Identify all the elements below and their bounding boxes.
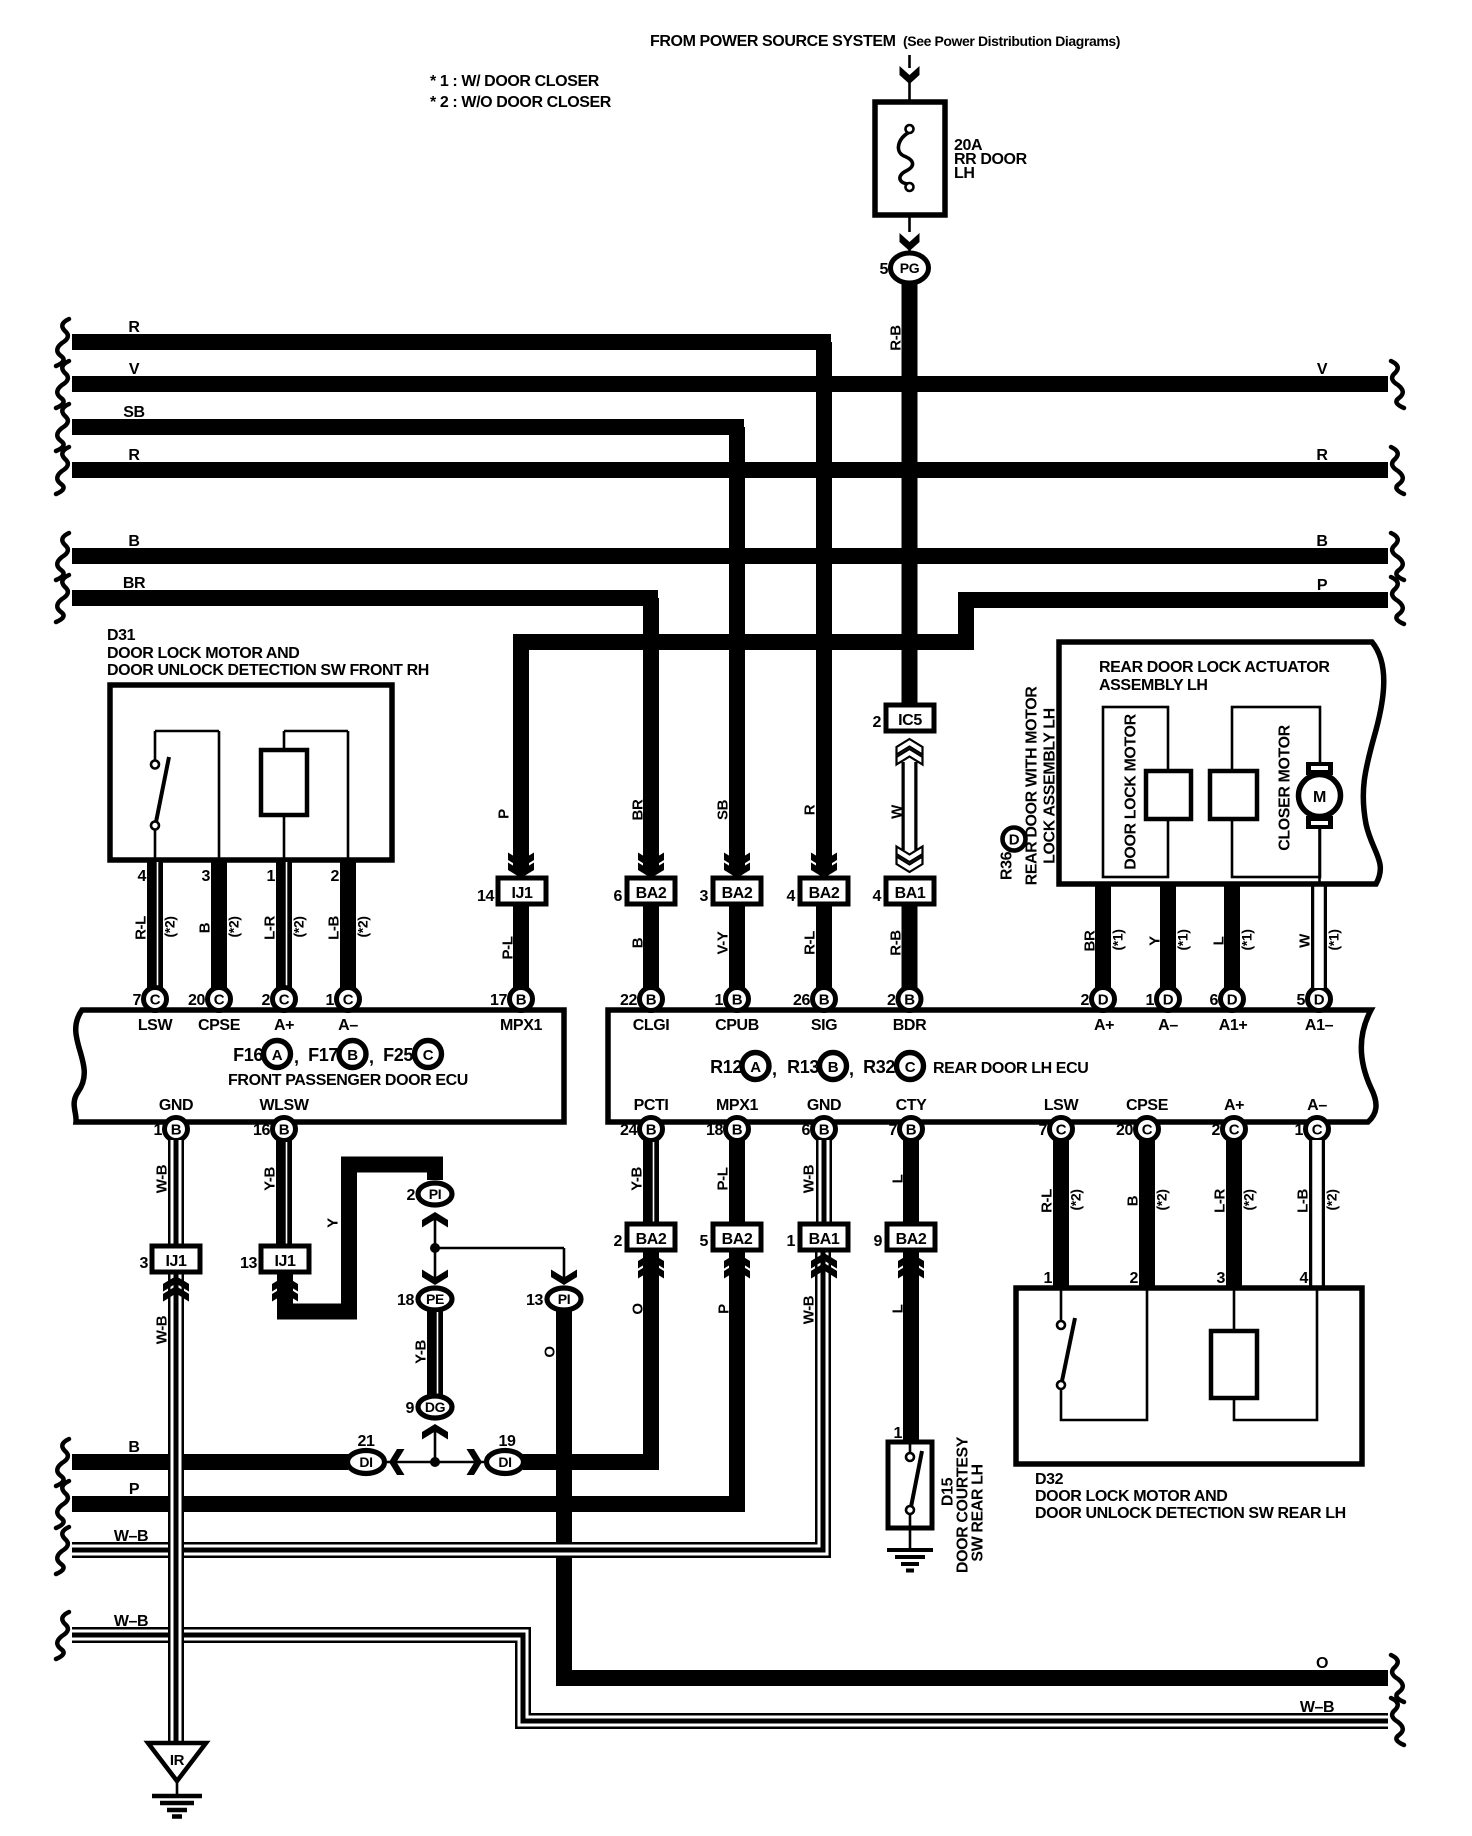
svg-text:REAR DOOR LH ECU: REAR DOOR LH ECU xyxy=(933,1060,1088,1077)
wire BR actuator pin2 xyxy=(1095,880,1111,988)
svg-text:BA2: BA2 xyxy=(722,1231,753,1248)
svg-text:1: 1 xyxy=(267,868,276,885)
arrow into IJ1-14 xyxy=(508,853,534,869)
junction box 6 BA2 xyxy=(627,878,675,904)
svg-text:7: 7 xyxy=(133,992,142,1009)
svg-text:3: 3 xyxy=(1217,1270,1226,1287)
pin 1 C A- rear xyxy=(1306,1118,1329,1141)
connector 2 PI xyxy=(418,1183,452,1205)
svg-text:BA2: BA2 xyxy=(809,885,840,902)
svg-text:B: B xyxy=(128,533,139,550)
svg-text:L-B: L-B xyxy=(326,916,343,940)
svg-text:(*1): (*1) xyxy=(1110,930,1126,951)
wire PI-2 to junction xyxy=(435,1216,564,1248)
pin 7 C LSW rear xyxy=(1050,1118,1073,1141)
svg-text:B: B xyxy=(732,992,743,1009)
pin 1 C A- xyxy=(337,988,360,1011)
svg-text:L: L xyxy=(1211,936,1228,945)
svg-text:R-L: R-L xyxy=(802,931,819,955)
svg-text:BA2: BA2 xyxy=(722,885,753,902)
svg-text:19: 19 xyxy=(499,1433,516,1450)
svg-text:18: 18 xyxy=(397,1292,414,1309)
svg-text:(*1): (*1) xyxy=(1326,930,1342,951)
svg-text:IJ1: IJ1 xyxy=(511,885,533,902)
svg-text:B: B xyxy=(630,937,647,948)
svg-text:1: 1 xyxy=(1044,1270,1053,1287)
pin 1 D A- xyxy=(1157,988,1180,1011)
svg-text:F25: F25 xyxy=(383,1045,413,1065)
svg-text:A–: A– xyxy=(1158,1017,1178,1034)
junction box 3 BA2 xyxy=(713,878,761,904)
svg-text:GND: GND xyxy=(159,1097,193,1114)
svg-text:LOCK ASSEMBLY LH: LOCK ASSEMBLY LH xyxy=(1042,708,1059,864)
svg-text:P: P xyxy=(1317,577,1328,594)
wire R-B from BA1 to ECU BDR xyxy=(902,904,918,988)
svg-text:(*2): (*2) xyxy=(1324,1190,1340,1211)
svg-text:Y-B: Y-B xyxy=(413,1340,430,1364)
left break W-B xyxy=(56,1527,69,1574)
pin 17 B MPX1 xyxy=(510,988,533,1011)
svg-text:* 1 : W/ DOOR CLOSER: * 1 : W/ DOOR CLOSER xyxy=(430,73,600,90)
pin 18 B MPX1 xyxy=(726,1118,749,1141)
junction box 2 IC5 xyxy=(886,705,934,731)
arrow into BA2-3 xyxy=(724,853,750,869)
open arrows up from IC5 xyxy=(897,749,923,765)
connector 21 DI xyxy=(348,1451,385,1474)
wire B rear pin2 xyxy=(1139,1140,1155,1288)
arrow left into DI-21 xyxy=(389,1449,405,1475)
svg-text:BA2: BA2 xyxy=(636,885,667,902)
svg-text:C: C xyxy=(1312,1122,1323,1139)
svg-text:2: 2 xyxy=(331,868,340,885)
courtesy switch xyxy=(909,1442,912,1453)
svg-text:DOOR LOCK MOTOR AND: DOOR LOCK MOTOR AND xyxy=(107,645,299,662)
junction dot B link xyxy=(430,1457,440,1467)
arrow into BA2-4 xyxy=(811,853,837,869)
svg-text:SB: SB xyxy=(123,404,144,421)
svg-text:4: 4 xyxy=(787,888,796,905)
svg-text:L: L xyxy=(890,1174,907,1183)
svg-text:W-B: W-B xyxy=(801,1295,818,1324)
pin 2 C A+ xyxy=(273,988,296,1011)
pin 7 C LSW xyxy=(144,988,167,1011)
svg-text:1: 1 xyxy=(894,1425,903,1442)
connector 21 DI link xyxy=(384,1461,487,1464)
svg-text:6: 6 xyxy=(1210,992,1219,1009)
svg-text:A+: A+ xyxy=(1224,1097,1244,1114)
junction box 5 BA2 xyxy=(713,1224,761,1250)
arrow into BA2-6 xyxy=(638,853,664,869)
component box REAR DOOR LOCK ACTUATOR ASSEMBLY LH xyxy=(1059,642,1384,884)
svg-text:A+: A+ xyxy=(1094,1017,1114,1034)
svg-text:R-B: R-B xyxy=(888,930,905,956)
connector 18 PE xyxy=(418,1288,452,1310)
svg-text:(*2): (*2) xyxy=(1154,1190,1170,1211)
wire L CTY to BA2-9 xyxy=(903,1140,919,1224)
left break R2 xyxy=(56,447,69,494)
wire P-L from IJ1 to ECU MPX1 xyxy=(513,904,529,988)
svg-text:(*2): (*2) xyxy=(355,917,371,938)
svg-text:P-L: P-L xyxy=(500,936,517,959)
svg-text:MPX1: MPX1 xyxy=(500,1017,542,1034)
svg-text:BDR: BDR xyxy=(893,1017,927,1034)
svg-text:PG: PG xyxy=(900,260,920,276)
svg-text:CTY: CTY xyxy=(896,1097,928,1114)
left break SB xyxy=(56,404,69,451)
fuse 20A RR DOOR LH xyxy=(875,102,945,215)
wire W-B IJ1-3 to IR ground xyxy=(168,1272,184,1743)
svg-text:2: 2 xyxy=(1081,992,1090,1009)
svg-text:B: B xyxy=(646,1122,657,1139)
svg-text:B: B xyxy=(646,992,657,1009)
connector 5 PG xyxy=(891,253,929,283)
svg-text:D: D xyxy=(1314,992,1325,1009)
svg-text:R32: R32 xyxy=(863,1057,895,1077)
svg-text:P: P xyxy=(496,809,513,819)
svg-text:2: 2 xyxy=(262,992,271,1009)
svg-text:W–B: W–B xyxy=(114,1613,148,1630)
svg-text:3: 3 xyxy=(140,1255,149,1272)
svg-text:DOOR LOCK MOTOR AND: DOOR LOCK MOTOR AND xyxy=(1035,1488,1227,1505)
svg-text:6: 6 xyxy=(802,1122,811,1139)
svg-text:B: B xyxy=(516,992,527,1009)
svg-text:R: R xyxy=(1316,447,1328,464)
door lock motor front RH xyxy=(284,731,348,858)
svg-text:L-R: L-R xyxy=(262,916,279,940)
svg-text:M: M xyxy=(1313,789,1326,806)
svg-text:L: L xyxy=(890,1304,907,1313)
svg-text:4: 4 xyxy=(873,888,882,905)
svg-text:,: , xyxy=(294,1047,299,1067)
svg-text:R12: R12 xyxy=(710,1057,742,1077)
svg-text:(*1): (*1) xyxy=(1175,930,1191,951)
svg-text:C: C xyxy=(905,1059,916,1076)
svg-text:P: P xyxy=(129,1481,140,1498)
svg-text:W-B: W-B xyxy=(801,1164,818,1193)
svg-text:24: 24 xyxy=(620,1122,637,1139)
svg-text:A: A xyxy=(750,1059,761,1076)
svg-text:ASSEMBLY LH: ASSEMBLY LH xyxy=(1099,677,1208,694)
svg-text:CLOSER MOTOR: CLOSER MOTOR xyxy=(1277,724,1294,850)
wire O from B bus to BA2-2 xyxy=(523,1250,651,1462)
svg-text:DI: DI xyxy=(359,1454,372,1470)
svg-text:W-B: W-B xyxy=(154,1164,171,1193)
wire B from BA2 to ECU CLGI xyxy=(643,904,659,988)
left break B xyxy=(56,533,69,580)
left break BR xyxy=(56,575,69,622)
svg-text:16: 16 xyxy=(253,1122,270,1139)
junction dot xyxy=(430,1243,440,1253)
pin 22 B CLGI xyxy=(640,988,663,1011)
svg-text:1: 1 xyxy=(1146,992,1155,1009)
svg-text:26: 26 xyxy=(793,992,810,1009)
svg-text:V-Y: V-Y xyxy=(715,931,732,954)
svg-text:B: B xyxy=(904,992,915,1009)
svg-text:C: C xyxy=(1229,1122,1240,1139)
svg-text:F17: F17 xyxy=(308,1045,338,1065)
junction box 3 IJ1 xyxy=(152,1246,200,1272)
svg-text:L-B: L-B xyxy=(1295,1189,1312,1213)
pin 16 B WLSW xyxy=(273,1118,296,1141)
svg-text:R-L: R-L xyxy=(133,916,150,940)
svg-text:1: 1 xyxy=(1295,1122,1304,1139)
svg-text:13: 13 xyxy=(526,1292,543,1309)
svg-text:4: 4 xyxy=(1300,1270,1309,1287)
wire W-B GND from ECU to ground IR xyxy=(168,1140,184,1244)
arrow down into PE-18 xyxy=(434,1248,437,1282)
bus wire B bottom xyxy=(72,1454,348,1470)
svg-text:DOOR LOCK MOTOR: DOOR LOCK MOTOR xyxy=(1123,713,1140,869)
svg-text:DOOR UNLOCK DETECTION SW REAR: DOOR UNLOCK DETECTION SW REAR LH xyxy=(1035,1505,1346,1522)
pin 7 B CTY xyxy=(900,1118,923,1141)
svg-text:,: , xyxy=(849,1059,854,1079)
svg-text:17: 17 xyxy=(490,992,507,1009)
svg-text:(*2): (*2) xyxy=(291,917,307,938)
pin 5 D A1- xyxy=(1308,988,1331,1011)
wire SB vertical to junction BA2-3 xyxy=(729,427,745,872)
svg-text:B: B xyxy=(197,922,214,933)
wire Y from IJ1-13 to PI-2 xyxy=(285,1165,435,1312)
right break B xyxy=(1391,533,1404,580)
arrow up into PI-2 xyxy=(422,1212,448,1228)
svg-text:13: 13 xyxy=(240,1255,257,1272)
svg-text:W–B: W–B xyxy=(114,1528,148,1545)
pin 24 B PCTI xyxy=(640,1118,663,1141)
pin 2 D A+ xyxy=(1092,988,1115,1011)
wire Y-B from PE-18 to DG-9 xyxy=(427,1310,443,1396)
arrow down into PI-13 xyxy=(563,1248,566,1282)
svg-text:C: C xyxy=(343,992,354,1009)
lock actuator element 1 xyxy=(1146,771,1191,819)
svg-text:(*2): (*2) xyxy=(162,917,178,938)
svg-text:Y-B: Y-B xyxy=(629,1167,646,1191)
wire R-L pin4 to LSW xyxy=(147,858,163,988)
svg-text:(*2): (*2) xyxy=(1241,1190,1257,1211)
svg-text:20: 20 xyxy=(1116,1122,1133,1139)
svg-text:BA2: BA2 xyxy=(896,1231,927,1248)
svg-text:LSW: LSW xyxy=(1044,1097,1080,1114)
pin 6 D A1+ xyxy=(1221,988,1244,1011)
wire L from D15 to BA2-9 xyxy=(903,1250,919,1442)
junction box 14 IJ1 xyxy=(498,878,546,904)
bus wire R (second) xyxy=(72,462,1388,478)
connector R36 D xyxy=(1003,828,1026,851)
arrow into fuse xyxy=(900,66,920,84)
pin 6 B GND xyxy=(813,1118,836,1141)
svg-text:D: D xyxy=(1098,992,1109,1009)
arrow up into BA2-9 xyxy=(898,1263,924,1279)
svg-text:22: 22 xyxy=(620,992,637,1009)
component box D32 xyxy=(1016,1288,1362,1464)
svg-text:R: R xyxy=(128,447,140,464)
svg-text:IJ1: IJ1 xyxy=(274,1253,296,1270)
svg-text:L-R: L-R xyxy=(1212,1189,1229,1213)
arrow up into IJ1-3 xyxy=(163,1286,189,1302)
svg-text:GND: GND xyxy=(807,1097,841,1114)
wire L actuator pin6 xyxy=(1224,880,1240,988)
svg-text:PI: PI xyxy=(558,1291,570,1307)
bus wire V xyxy=(72,376,1388,392)
svg-text:C: C xyxy=(1142,1122,1153,1139)
svg-text:R: R xyxy=(802,804,819,815)
svg-text:A1–: A1– xyxy=(1305,1017,1334,1034)
svg-text:21: 21 xyxy=(358,1433,375,1450)
connector 19 DI xyxy=(487,1451,524,1474)
wire P-L MPX1 to BA2-5 xyxy=(729,1140,745,1224)
svg-text:CPSE: CPSE xyxy=(1126,1097,1169,1114)
svg-text:2: 2 xyxy=(873,714,882,731)
connector 13 PI xyxy=(547,1288,581,1310)
svg-text:B: B xyxy=(347,1047,358,1064)
svg-text:B: B xyxy=(1125,1195,1142,1206)
svg-text:R13: R13 xyxy=(787,1057,819,1077)
svg-text:V: V xyxy=(129,361,140,378)
svg-text:R36: R36 xyxy=(999,851,1016,880)
arrow up into IJ1-3 (over wire) xyxy=(163,1286,189,1302)
svg-text:B: B xyxy=(171,1122,182,1139)
junction box 4 BA2 xyxy=(800,878,848,904)
wire W between IC5 and BA1 (white) xyxy=(902,762,918,850)
wire BR vertical to junction BA2-6 xyxy=(643,598,659,872)
svg-text:SW REAR LH: SW REAR LH xyxy=(970,1464,987,1561)
svg-text:Y: Y xyxy=(1147,936,1164,946)
door lock motor sub-box xyxy=(1103,707,1168,877)
svg-text:W: W xyxy=(1297,933,1314,948)
wire Y actuator pin1 xyxy=(1160,880,1176,988)
closer motor M xyxy=(1306,762,1333,775)
wire R vertical to junction BA2-4 xyxy=(816,342,832,872)
component box D31 xyxy=(110,685,392,860)
right break V xyxy=(1391,361,1404,408)
svg-text:MPX1: MPX1 xyxy=(716,1097,758,1114)
svg-text:4: 4 xyxy=(138,868,147,885)
svg-text:FRONT PASSENGER DOOR ECU: FRONT PASSENGER DOOR ECU xyxy=(228,1072,468,1089)
door unlock detection switch rear LH xyxy=(1061,1288,1147,1420)
svg-text:PE: PE xyxy=(426,1291,444,1307)
wire B pin3 to CPSE xyxy=(211,858,227,988)
open arrows into BA1-4 xyxy=(897,847,923,863)
svg-text:,: , xyxy=(369,1047,374,1067)
door lock motor rear LH xyxy=(1234,1288,1317,1420)
wire R-L from BA2 to ECU SIG xyxy=(816,904,832,988)
bus wire R (top) xyxy=(72,334,831,350)
svg-text:3: 3 xyxy=(202,868,211,885)
door unlock detection switch front RH xyxy=(155,731,219,858)
svg-text:F16: F16 xyxy=(233,1045,263,1065)
svg-text:5: 5 xyxy=(1297,992,1306,1009)
ECU box FRONT PASSENGER DOOR ECU xyxy=(74,1010,564,1122)
svg-text:6: 6 xyxy=(614,888,623,905)
svg-text:C: C xyxy=(423,1047,434,1064)
arrow right into DI-19 xyxy=(467,1449,483,1475)
svg-text:9: 9 xyxy=(406,1400,415,1417)
svg-text:2: 2 xyxy=(1212,1122,1221,1139)
svg-text:O: O xyxy=(630,1303,647,1315)
left break B bottom xyxy=(56,1439,69,1486)
svg-text:3: 3 xyxy=(700,888,709,905)
arrow up into BA2-2 xyxy=(638,1263,664,1279)
svg-text:BR: BR xyxy=(123,575,146,592)
wire Y-B PCTI to BA2-2 xyxy=(643,1140,659,1224)
wire O from PI-13 down to right xyxy=(564,1310,1388,1678)
svg-text:2: 2 xyxy=(1130,1270,1139,1287)
wire R-B from fuse to IC5 xyxy=(902,283,918,705)
svg-text:2: 2 xyxy=(614,1233,623,1250)
svg-text:B: B xyxy=(732,1122,743,1139)
svg-text:(See Power Distribution Diagra: (See Power Distribution Diagrams) xyxy=(903,33,1120,49)
svg-text:B: B xyxy=(279,1122,290,1139)
svg-text:Y: Y xyxy=(325,1218,342,1228)
svg-text:7: 7 xyxy=(1039,1122,1048,1139)
svg-text:DI: DI xyxy=(498,1454,511,1470)
right break O xyxy=(1391,1655,1404,1702)
svg-text:REAR DOOR WITH MOTOR: REAR DOOR WITH MOTOR xyxy=(1024,686,1041,886)
wire R-L rear pin1 xyxy=(1053,1140,1069,1288)
svg-text:LH: LH xyxy=(954,165,975,182)
svg-text:W: W xyxy=(889,804,906,819)
ground IR xyxy=(148,1743,206,1781)
wire L-B rear pin4 (white) xyxy=(1309,1140,1325,1288)
bus wire B xyxy=(72,548,1388,564)
svg-text:O: O xyxy=(1316,1655,1328,1672)
svg-text:W–B: W–B xyxy=(1300,1699,1334,1716)
component box D15 DOOR COURTESY SW REAR LH xyxy=(888,1442,932,1528)
svg-text:BA1: BA1 xyxy=(809,1231,840,1248)
pin 26 B SIG xyxy=(813,988,836,1011)
svg-text:C: C xyxy=(150,992,161,1009)
pin 1 B CPUB xyxy=(726,988,749,1011)
ground at D15 xyxy=(887,1548,933,1552)
pin 2 C A+ rear xyxy=(1223,1118,1246,1141)
svg-text:Y-B: Y-B xyxy=(262,1167,279,1191)
svg-text:C: C xyxy=(1056,1122,1067,1139)
left break W-B second xyxy=(56,1612,69,1659)
closer motor sub-box xyxy=(1232,707,1320,877)
svg-text:D31: D31 xyxy=(107,627,136,644)
svg-text:D: D xyxy=(1163,992,1174,1009)
pin 20 C CPSE xyxy=(208,988,231,1011)
junction box 3 IJ1 (redraw) xyxy=(152,1246,200,1272)
wire L-R pin1 to A+ xyxy=(276,858,292,988)
wire L-R rear pin3 xyxy=(1226,1140,1242,1288)
svg-text:(*2): (*2) xyxy=(226,917,242,938)
svg-text:CPUB: CPUB xyxy=(715,1017,759,1034)
svg-text:BR: BR xyxy=(630,799,647,820)
svg-text:A: A xyxy=(272,1047,283,1064)
svg-text:20: 20 xyxy=(188,992,205,1009)
ECU box REAR DOOR LH ECU xyxy=(608,1010,1376,1122)
svg-text:CPSE: CPSE xyxy=(198,1017,241,1034)
svg-text:C: C xyxy=(214,992,225,1009)
svg-text:R-B: R-B xyxy=(888,325,905,351)
left break R xyxy=(56,319,69,366)
svg-text:B: B xyxy=(1316,533,1327,550)
wire W-B GND column triple vertical xyxy=(816,1140,832,1222)
svg-text:R: R xyxy=(128,319,140,336)
svg-text:1: 1 xyxy=(787,1233,796,1250)
svg-text:W-B: W-B xyxy=(154,1315,171,1344)
arrow into PG xyxy=(900,233,920,251)
pin 20 C CPSE rear xyxy=(1136,1118,1159,1141)
wire L-B pin2 to A- xyxy=(340,858,356,988)
svg-text:D32: D32 xyxy=(1035,1471,1064,1488)
svg-text:V: V xyxy=(1317,361,1328,378)
svg-text:BA1: BA1 xyxy=(895,885,926,902)
lock actuator element 2 xyxy=(1210,771,1257,819)
svg-text:PCTI: PCTI xyxy=(634,1097,669,1114)
junction box 2 BA2 xyxy=(627,1224,675,1250)
bus wire SB xyxy=(72,419,744,435)
